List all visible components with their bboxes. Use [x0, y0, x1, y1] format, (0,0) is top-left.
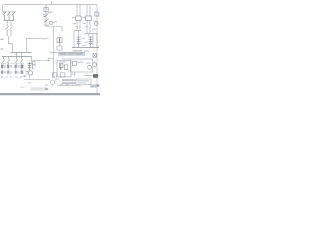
label text smudge near F1: [48, 12, 53, 13]
below-cabinet smudge: [70, 73, 75, 74]
column connector wires: [2, 68, 22, 70]
meter lower tick B: [85, 25, 88, 27]
meter label smudge A: [72, 17, 75, 18]
wire top supply line L1: [3, 4, 98, 6]
enclosure box corner: [27, 39, 49, 53]
check valve symbol b: [66, 84, 68, 86]
riser wires right block: [74, 31, 97, 48]
wire jog to bus: [9, 36, 13, 52]
right column small smudge: [92, 29, 95, 30]
terminal strip T1: [52, 73, 57, 77]
cabinet pump circle: [88, 65, 92, 69]
limit switch box with X: [93, 54, 96, 58]
footer small marks left: [20, 87, 24, 88]
junction box inner module B: [64, 65, 68, 70]
motor M1 circle: [50, 80, 54, 84]
wire heater run: [57, 84, 75, 86]
wire long bottom run: [24, 79, 50, 81]
auxiliary contact block row 2: [1, 71, 23, 74]
cable duct text dashes: [60, 53, 67, 54]
valve side scribble: [26, 71, 29, 72]
F2 label smudge: [82, 38, 85, 39]
border fuse box: [95, 12, 99, 16]
cabinet inner module: [72, 61, 76, 65]
wire left feed drop: [2, 5, 4, 12]
control cabinet box right: [71, 59, 93, 72]
junction box inner module A: [59, 63, 63, 67]
meter lower label smudge B: [83, 23, 86, 24]
corner revision table smudge: [90, 84, 96, 87]
indicator lamp P1: [49, 21, 52, 24]
overload relay F3 heater bars: [89, 36, 93, 47]
valve actuator circle: [29, 71, 33, 75]
auxiliary contact block row 1: [1, 65, 23, 69]
sensor tick: [93, 20, 95, 22]
junction box center bottom: [57, 60, 71, 77]
wire valve to long run: [29, 75, 31, 80]
fuse F1 chain top center: [43, 5, 49, 27]
transformer T3 branch wires: [77, 5, 90, 16]
relay K2 dark pin: [59, 38, 61, 43]
footer tab pill: [30, 87, 49, 91]
relay K2 box: [57, 38, 62, 43]
meter lower tick A: [75, 25, 78, 27]
terminal row end mark: [24, 75, 26, 77]
solenoid valve Y1 cluster: [28, 61, 35, 70]
check valve symbol a: [60, 84, 62, 86]
cabinet header wire: [62, 58, 71, 60]
wire cross header B: [84, 33, 97, 35]
disconnect switch Q1 (3-pole): [3, 11, 15, 20]
contact row bottom rail: [1, 63, 24, 65]
wire K2 to K3: [59, 43, 61, 46]
border sensor circle: [94, 22, 98, 26]
cabinet title smudge: [78, 62, 84, 63]
wire into cabinet from left: [48, 58, 54, 60]
terminal stub at sheet top: [51, 2, 53, 5]
sensor circle outside cabinet: [93, 63, 97, 67]
right border wire: [96, 5, 98, 94]
title block band: [0, 93, 100, 95]
bus label smudge: [1, 48, 4, 49]
terminal strip T2: [60, 73, 65, 77]
wire bus to valve line: [32, 56, 50, 60]
terminal contacts row below bus: [2, 52, 22, 64]
contactor K1 main contacts: [6, 20, 13, 36]
nameplate footer text row: [75, 85, 82, 86]
title band highlight: [0, 93, 100, 96]
meter lower label smudge A: [73, 23, 76, 24]
node tick left margin: [1, 38, 4, 40]
footer tab mark: [45, 88, 48, 90]
meter box A: [76, 16, 82, 20]
corner revision dark cell: [97, 84, 99, 86]
smudge below bottom run: [28, 82, 31, 83]
wire into shaded duct: [50, 52, 58, 54]
F3 label smudge: [85, 42, 88, 43]
legend bar row 1: [62, 79, 76, 81]
nameplate box: [76, 79, 91, 84]
meter box B: [86, 16, 92, 20]
dark junction block: [93, 74, 98, 78]
nameplate text smudges: [77, 80, 88, 81]
cabinet marks smudge: [86, 63, 91, 64]
wires below meters: [77, 20, 90, 33]
bus bar upper: [10, 51, 31, 53]
motor label smudge: [45, 85, 49, 86]
meter label smudge B: [82, 17, 85, 18]
wire control branch: [46, 27, 62, 32]
wire center riser: [53, 27, 55, 78]
node label smudge: [42, 38, 45, 39]
cable duct shaded bar: [58, 52, 85, 56]
terminal numbering smudges: [1, 76, 4, 77]
cable duct top edge: [58, 51, 85, 53]
motor M1 leads: [49, 79, 57, 86]
valve label smudge right: [33, 65, 36, 66]
legend bar row 2: [62, 82, 76, 84]
wire lower right run: [84, 75, 99, 77]
arrowhead on valve line: [48, 60, 50, 62]
bus bar right: [72, 47, 99, 49]
wire cross header A: [74, 30, 81, 32]
below-cabinet stub: [74, 72, 76, 76]
inner module dark pin: [60, 64, 62, 70]
motor cluster marks: [55, 79, 59, 80]
smudge above right bus: [82, 45, 87, 46]
bus bar lower: [2, 55, 32, 57]
relay K3 box: [57, 46, 62, 50]
right bus label smudges: [72, 50, 82, 51]
overload relay F2 heater bars: [77, 36, 81, 47]
box title smudge: [59, 61, 66, 62]
